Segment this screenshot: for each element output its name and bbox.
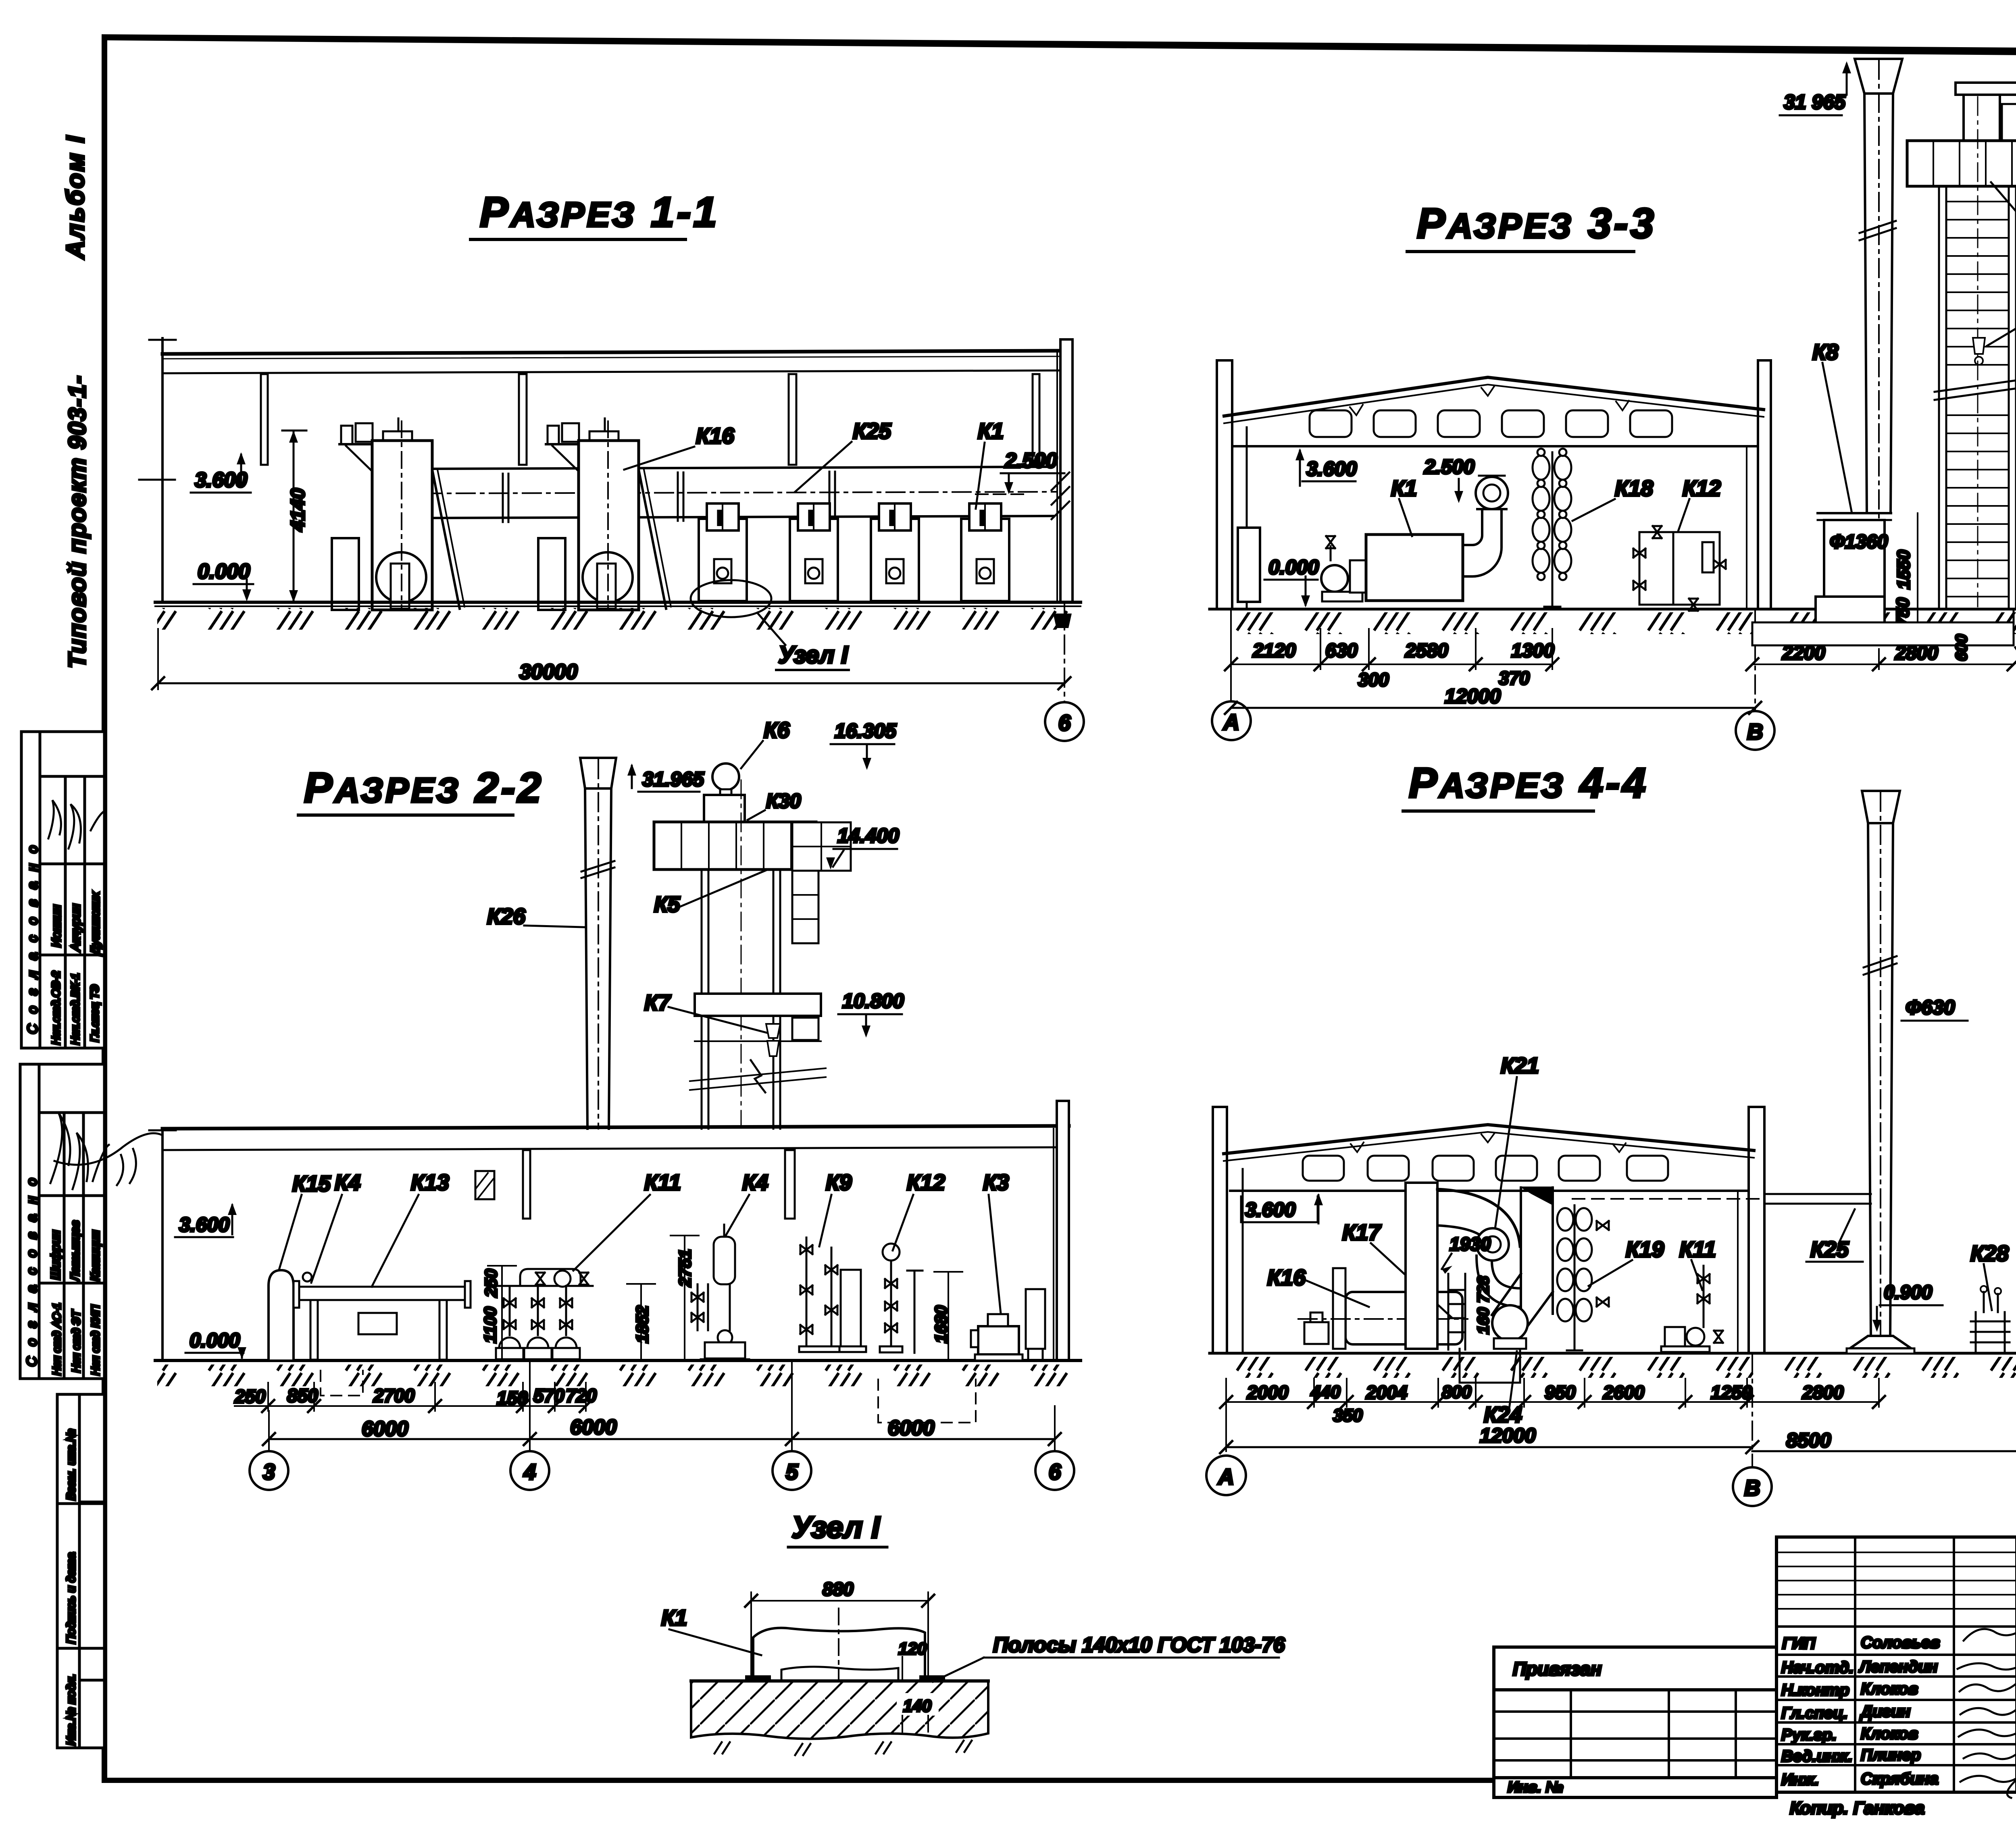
svg-text:К4: К4 — [335, 1170, 360, 1195]
svg-text:370: 370 — [1499, 668, 1530, 689]
svg-text:Скрябина: Скрябина — [1861, 1770, 1939, 1788]
svg-text:5: 5 — [786, 1459, 799, 1484]
svg-text:Лепендин: Лепендин — [1858, 1658, 1938, 1676]
svg-text:К19: К19 — [1626, 1237, 1664, 1262]
svg-text:2200: 2200 — [1782, 643, 1825, 664]
svg-text:Ф630: Ф630 — [1906, 996, 1955, 1019]
svg-text:2120: 2120 — [1252, 640, 1296, 661]
svg-text:0.000: 0.000 — [1268, 556, 1319, 578]
svg-text:140: 140 — [903, 1696, 931, 1715]
svg-text:3: 3 — [263, 1459, 275, 1484]
svg-text:250: 250 — [234, 1386, 266, 1407]
svg-text:К6: К6 — [764, 718, 790, 743]
svg-text:150: 150 — [497, 1387, 528, 1408]
svg-text:Полосы 140х10 ГОСТ 103-76: Полосы 140х10 ГОСТ 103-76 — [993, 1633, 1285, 1657]
svg-text:К16: К16 — [696, 423, 734, 448]
svg-text:К30: К30 — [766, 790, 801, 812]
svg-text:Нач отд ЭТ: Нач отд ЭТ — [70, 1310, 82, 1373]
svg-text:К3: К3 — [983, 1170, 1009, 1195]
svg-text:630: 630 — [1325, 640, 1358, 661]
svg-text:Вед.инж.: Вед.инж. — [1781, 1747, 1853, 1765]
svg-text:Согласовано: Согласовано — [24, 1168, 40, 1367]
svg-text:350: 350 — [1333, 1406, 1363, 1425]
svg-text:Согласовано: Согласовано — [25, 835, 40, 1034]
svg-text:950: 950 — [1545, 1382, 1576, 1403]
svg-text:Акчурин: Акчурин — [69, 904, 83, 952]
svg-text:Привязан: Привязан — [1513, 1658, 1602, 1679]
svg-text:1680: 1680 — [931, 1306, 950, 1343]
svg-text:160 728: 160 728 — [1475, 1276, 1492, 1334]
svg-text:1300: 1300 — [1511, 640, 1554, 661]
svg-text:12000: 12000 — [1445, 685, 1501, 707]
svg-text:Дигин: Дигин — [1860, 1703, 1910, 1720]
svg-text:30000: 30000 — [519, 660, 578, 684]
svg-text:Узел I: Узел I — [778, 641, 848, 668]
svg-text:Соловьев: Соловьев — [1861, 1634, 1940, 1652]
svg-text:Клоков: Клоков — [1861, 1725, 1918, 1743]
svg-text:6: 6 — [1049, 1459, 1061, 1484]
svg-text:ГИП: ГИП — [1782, 1635, 1816, 1652]
svg-text:Нач.отд.ВК-1: Нач.отд.ВК-1 — [69, 973, 81, 1045]
svg-text:6000: 6000 — [362, 1417, 408, 1441]
svg-text:К12: К12 — [1683, 476, 1721, 501]
svg-text:Нач отд КИП: Нач отд КИП — [89, 1304, 102, 1375]
svg-text:К13: К13 — [411, 1170, 449, 1195]
svg-text:РАЗРЕЗ 4-4: РАЗРЕЗ 4-4 — [1409, 759, 1648, 807]
svg-text:0.000: 0.000 — [190, 1329, 240, 1352]
svg-text:14.400: 14.400 — [837, 824, 899, 847]
svg-text:Узел I: Узел I — [791, 1510, 881, 1545]
svg-text:Копир. Ганкова: Копир. Ганкова — [1790, 1798, 1924, 1818]
svg-text:К4: К4 — [742, 1170, 768, 1195]
svg-text:31.965: 31.965 — [642, 768, 704, 790]
svg-text:3.600: 3.600 — [1306, 458, 1357, 480]
svg-text:К1: К1 — [978, 418, 1004, 443]
svg-text:Клоков: Клоков — [1861, 1680, 1918, 1698]
svg-text:Типовой проект 903-1-: Типовой проект 903-1- — [64, 375, 91, 668]
svg-text:А: А — [1217, 1464, 1234, 1489]
svg-text:1930: 1930 — [1450, 1234, 1491, 1254]
svg-text:I: I — [717, 507, 723, 529]
svg-text:2800: 2800 — [1895, 643, 1938, 664]
svg-text:1250: 1250 — [1711, 1382, 1752, 1403]
svg-text:4140: 4140 — [287, 488, 309, 532]
svg-text:440: 440 — [1310, 1382, 1341, 1402]
svg-text:2.500: 2.500 — [1424, 456, 1475, 478]
svg-text:Нач.отд.: Нач.отд. — [1781, 1659, 1854, 1677]
svg-text:12000: 12000 — [1480, 1424, 1536, 1447]
svg-text:3.600: 3.600 — [195, 468, 247, 492]
svg-text:720: 720 — [566, 1385, 597, 1406]
svg-text:1100: 1100 — [481, 1307, 500, 1343]
svg-text:6000: 6000 — [888, 1417, 935, 1440]
svg-text:2004: 2004 — [1366, 1382, 1407, 1403]
svg-text:1550: 1550 — [1894, 550, 1914, 589]
svg-text:К9: К9 — [826, 1170, 852, 1195]
svg-text:Альбом I: Альбом I — [62, 134, 90, 260]
svg-text:2580: 2580 — [1405, 640, 1448, 661]
svg-text:10.800: 10.800 — [842, 990, 904, 1012]
svg-text:31 965: 31 965 — [1784, 91, 1846, 113]
svg-text:РАЗРЕЗ 1-1: РАЗРЕЗ 1-1 — [480, 189, 719, 236]
svg-text:Плинер: Плинер — [1861, 1746, 1921, 1764]
svg-text:570: 570 — [533, 1385, 564, 1406]
svg-text:К21: К21 — [1501, 1053, 1539, 1078]
svg-text:К26: К26 — [487, 904, 525, 929]
svg-text:0.900: 0.900 — [1884, 1282, 1932, 1303]
svg-text:0.000: 0.000 — [198, 560, 250, 583]
svg-text:6000: 6000 — [570, 1416, 617, 1439]
svg-text:8500: 8500 — [1786, 1429, 1831, 1452]
svg-text:6: 6 — [1058, 710, 1071, 735]
svg-text:В: В — [1747, 719, 1763, 744]
svg-text:600: 600 — [1953, 634, 1970, 661]
svg-text:К18: К18 — [1615, 476, 1653, 501]
svg-text:Рук.гр.: Рук.гр. — [1781, 1726, 1837, 1744]
svg-text:А: А — [1223, 709, 1239, 734]
svg-text:4: 4 — [523, 1459, 536, 1484]
svg-text:К11: К11 — [644, 1170, 681, 1195]
svg-text:К24: К24 — [1484, 1402, 1522, 1427]
svg-text:250: 250 — [481, 1269, 500, 1298]
svg-text:К1: К1 — [1391, 476, 1417, 501]
svg-text:Взам. инв.№: Взам. инв.№ — [65, 1429, 78, 1500]
svg-text:800: 800 — [1442, 1382, 1472, 1402]
svg-text:Нач отд АС-1: Нач отд АС-1 — [50, 1303, 63, 1375]
svg-text:850: 850 — [287, 1385, 318, 1406]
svg-text:Ионкин: Ионкин — [49, 905, 63, 947]
svg-text:1852: 1852 — [633, 1306, 652, 1343]
svg-text:Инж.: Инж. — [1781, 1771, 1819, 1789]
svg-text:16.305: 16.305 — [835, 720, 897, 742]
svg-text:Инв. №: Инв. № — [1508, 1779, 1563, 1796]
svg-text:К15: К15 — [292, 1171, 331, 1196]
svg-text:К17: К17 — [1342, 1220, 1381, 1245]
svg-text:2.500: 2.500 — [1004, 449, 1057, 472]
svg-text:2800: 2800 — [1802, 1382, 1844, 1403]
svg-text:300: 300 — [1358, 669, 1389, 690]
svg-text:Гл.спец ТЭ: Гл.спец ТЭ — [88, 984, 101, 1042]
svg-text:К25: К25 — [1810, 1237, 1849, 1262]
svg-text:Нач.отд.ОВ-2: Нач.отд.ОВ-2 — [50, 971, 62, 1045]
svg-text:Кашицин: Кашицин — [89, 1230, 102, 1281]
svg-text:К28: К28 — [1970, 1241, 2009, 1266]
svg-text:К5: К5 — [654, 892, 681, 917]
svg-text:120: 120 — [898, 1639, 927, 1658]
svg-text:3.600: 3.600 — [179, 1213, 229, 1236]
svg-text:Латынцев: Латынцев — [69, 1221, 82, 1282]
svg-text:2700: 2700 — [373, 1385, 415, 1406]
svg-text:К11: К11 — [1679, 1237, 1716, 1262]
svg-text:К1: К1 — [661, 1605, 687, 1630]
svg-text:Душинских: Душинских — [89, 892, 102, 956]
svg-text:К7: К7 — [644, 990, 671, 1015]
svg-text:В: В — [1744, 1475, 1760, 1500]
svg-text:К25: К25 — [853, 418, 891, 443]
svg-text:2600: 2600 — [1603, 1382, 1645, 1403]
svg-text:Н.контр: Н.контр — [1781, 1681, 1849, 1699]
svg-text:Ф1360: Ф1360 — [1830, 531, 1888, 553]
svg-text:РАЗРЕЗ 2-2: РАЗРЕЗ 2-2 — [304, 764, 544, 811]
svg-text:Шифрин: Шифрин — [48, 1230, 62, 1280]
svg-text:3.600: 3.600 — [1245, 1198, 1295, 1221]
svg-text:880: 880 — [823, 1579, 854, 1600]
svg-text:РАЗРЕЗ 3-3: РАЗРЕЗ 3-3 — [1417, 200, 1656, 247]
svg-text:Подпись и дата: Подпись и дата — [65, 1552, 78, 1644]
svg-text:К8: К8 — [1812, 339, 1839, 364]
svg-text:К12: К12 — [907, 1170, 945, 1195]
svg-text:Инв.№ подл.: Инв.№ подл. — [65, 1674, 78, 1745]
svg-text:2000: 2000 — [1247, 1382, 1289, 1403]
svg-text:Гл.спец.: Гл.спец. — [1781, 1704, 1848, 1722]
